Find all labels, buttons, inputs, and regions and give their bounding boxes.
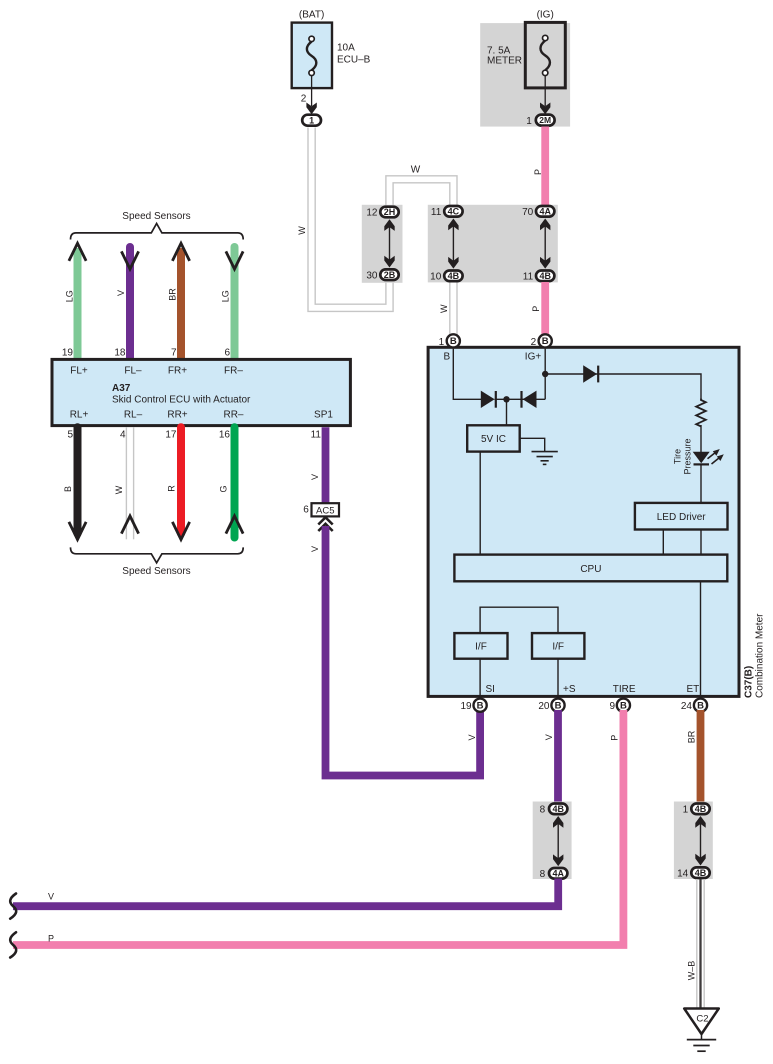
- svg-text:19: 19: [460, 701, 472, 712]
- wire CPU down to ET pin 24: [700, 581, 702, 700]
- label W (top horizontal segment): [411, 165, 421, 176]
- svg-text:I/F: I/F: [475, 642, 487, 653]
- wire W-B: 4B down to ground C2: [697, 879, 704, 1008]
- designator C37(B) Combination Meter: [744, 613, 766, 698]
- svg-text:4C: 4C: [448, 206, 460, 216]
- pin 1 of connector 2M: [526, 116, 532, 127]
- ground (5V IC): [532, 452, 558, 465]
- pin 2 terminal B: [539, 334, 552, 347]
- svg-text:W: W: [114, 485, 124, 494]
- svg-text:V: V: [544, 734, 554, 740]
- label V (left horizontal wire): [48, 892, 54, 902]
- svg-text:FL–: FL–: [124, 365, 142, 376]
- svg-text:B: B: [443, 352, 450, 363]
- svg-text:BR: BR: [168, 288, 178, 301]
- svg-text:2H: 2H: [384, 207, 396, 217]
- connector 4B (left): [444, 271, 462, 282]
- wire B pin1 down and right to diode D1: [453, 349, 481, 400]
- pin 10 of 4B: [430, 271, 442, 282]
- label P (below 4B): [531, 306, 541, 312]
- pin 2 of fuse: [301, 94, 307, 105]
- label P (TIRE wire): [610, 735, 620, 741]
- interface I/F (SI): [454, 633, 507, 659]
- wire V: 4A down and left to edge: [13, 879, 558, 907]
- connector 4C: [444, 206, 462, 217]
- wire LG speed sensor FR-: [226, 247, 243, 358]
- value 7.5A METER: [487, 46, 522, 67]
- pin 20 label: [538, 701, 550, 712]
- pin 12: [366, 208, 378, 219]
- junction node between diodes: [503, 396, 509, 402]
- wire I/F to +S pin 20: [557, 659, 559, 700]
- label V (+S wire): [544, 734, 554, 740]
- junction arrow between 4B and 4A: [553, 816, 563, 866]
- wire P: 4B down to meter pin 2 B: [541, 282, 549, 335]
- svg-text:LG: LG: [221, 290, 231, 302]
- svg-text:10: 10: [430, 271, 442, 282]
- connector 2M: [536, 115, 555, 126]
- wire 5V IC down to CPU: [479, 452, 481, 555]
- svg-text:1: 1: [309, 115, 314, 125]
- svg-text:4B: 4B: [539, 271, 551, 281]
- wire I/F to SI pin 19: [479, 659, 481, 700]
- svg-text:2: 2: [301, 94, 307, 105]
- double chevron below AC5: [318, 517, 332, 531]
- connector block 2H/2B background: [362, 205, 403, 283]
- svg-text:6: 6: [303, 505, 309, 516]
- svg-text:I/F: I/F: [552, 642, 564, 653]
- brace speed sensors bottom: [71, 547, 244, 562]
- svg-text:P: P: [533, 169, 543, 175]
- regulator 5V IC: [467, 425, 520, 451]
- pin 24 terminal B: [694, 699, 707, 712]
- pin 30: [366, 270, 378, 281]
- connector 4A (V wire): [549, 868, 567, 879]
- wire P: connector 2M down to 4A: [541, 127, 549, 206]
- svg-text:B: B: [63, 486, 73, 492]
- svg-text:W: W: [411, 165, 421, 176]
- pin 9 label: [609, 701, 615, 712]
- diode D3: [583, 365, 598, 382]
- svg-text:Speed Sensors: Speed Sensors: [122, 566, 190, 577]
- wire W: fuse connector 1 down, right, up into 2B: [308, 128, 393, 312]
- connector 4B upper (ET): [691, 804, 709, 815]
- pin 16 of A37: [219, 430, 231, 441]
- pin 19 label: [460, 701, 472, 712]
- interface I/F (+S): [532, 633, 584, 659]
- svg-text:11: 11: [523, 271, 534, 282]
- svg-text:4A: 4A: [552, 868, 564, 878]
- diode D2: [522, 391, 537, 408]
- pin 5 of A37: [67, 430, 73, 441]
- pin 17 of A37: [165, 430, 177, 441]
- svg-text:16: 16: [219, 430, 231, 441]
- svg-text:V: V: [467, 734, 477, 740]
- svg-text:Combination Meter: Combination Meter: [755, 613, 766, 698]
- pin 6 of A37: [224, 348, 230, 359]
- svg-text:6: 6: [224, 348, 230, 359]
- pin 1 terminal B: [447, 334, 460, 347]
- junction arrow between 4A and 4B: [540, 219, 550, 269]
- ground C2: [684, 1009, 719, 1035]
- pin 1 label: [439, 337, 445, 348]
- wire V: SP1 down to AC5: [322, 427, 330, 503]
- svg-text:FR–: FR–: [224, 365, 243, 376]
- svg-text:4B: 4B: [695, 804, 707, 814]
- svg-text:ET: ET: [687, 684, 700, 695]
- svg-text:Speed Sensors: Speed Sensors: [122, 211, 190, 222]
- svg-text:W–B: W–B: [687, 961, 697, 981]
- svg-text:ECU–B: ECU–B: [337, 55, 371, 66]
- wire W: 4B down to meter pin 1 B: [450, 282, 457, 335]
- label P (left horizontal wire): [48, 934, 54, 944]
- junction arrow between 4C and 4B: [448, 219, 458, 269]
- svg-text:(BAT): (BAT): [299, 9, 324, 20]
- wire between diodes D1 D2: [495, 398, 546, 400]
- svg-text:11: 11: [431, 207, 442, 218]
- terminal FR-: [224, 365, 243, 376]
- wire R speed sensor RR+: [172, 427, 189, 539]
- svg-text:TIRE: TIRE: [613, 684, 636, 695]
- designator A37: [112, 383, 131, 394]
- fuse 10A ECU-B (BAT): [292, 23, 332, 89]
- svg-text:C2: C2: [696, 1013, 708, 1024]
- pin 7 of A37: [171, 348, 177, 359]
- svg-text:14: 14: [677, 868, 689, 879]
- connector 2B: [380, 269, 398, 280]
- svg-text:4B: 4B: [695, 868, 707, 878]
- label W (below 4B): [439, 304, 449, 313]
- fuse 7.5A METER (IG): [525, 22, 565, 88]
- wire fuse ECU-B to connector 1: [306, 76, 316, 115]
- svg-text:LED Driver: LED Driver: [657, 512, 707, 523]
- svg-text:SP1: SP1: [314, 410, 333, 421]
- wire G speed sensor RR-: [226, 427, 243, 537]
- svg-text:RR+: RR+: [167, 410, 187, 421]
- svg-text:BR: BR: [686, 730, 696, 743]
- pin 20 terminal B: [551, 699, 564, 712]
- svg-text:70: 70: [522, 207, 534, 218]
- wire BR: pin 24 ET down to 4B: [697, 710, 705, 804]
- connector block 4B/4A background: [533, 802, 572, 880]
- svg-text:P: P: [48, 934, 54, 944]
- wire LED Driver to CPU (left): [662, 530, 664, 555]
- label BR (FR+): [168, 288, 178, 301]
- svg-text:10A: 10A: [337, 43, 355, 54]
- svg-text:METER: METER: [487, 56, 522, 67]
- wire BR speed sensor FR+: [172, 243, 189, 358]
- label (BAT): [299, 9, 324, 20]
- connector 4B lower (ET): [691, 867, 709, 878]
- svg-text:P: P: [531, 306, 541, 312]
- wire LED down to LED Driver: [700, 464, 702, 503]
- svg-text:2B: 2B: [384, 270, 396, 280]
- pin 11 of A37 (SP1): [311, 430, 322, 441]
- svg-text:W: W: [297, 226, 307, 235]
- name Skid Control ECU with Actuator: [112, 395, 251, 406]
- ECU A37 Skid Control ECU with Actuator: [52, 359, 350, 425]
- svg-text:B: B: [450, 336, 457, 347]
- label V (above AC5): [310, 474, 320, 480]
- svg-text:+S: +S: [563, 684, 576, 695]
- label W-B: [687, 961, 697, 981]
- connector 4B (right): [536, 271, 554, 282]
- ground hash: [687, 1034, 716, 1051]
- svg-text:RL+: RL+: [70, 410, 89, 421]
- svg-text:RL–: RL–: [124, 410, 143, 421]
- svg-text:1: 1: [526, 116, 532, 127]
- svg-text:11: 11: [311, 430, 322, 441]
- break symbol P wire: [10, 932, 16, 957]
- svg-text:5: 5: [67, 430, 73, 441]
- terminal SI: [486, 684, 495, 695]
- label Speed Sensors (top): [122, 211, 190, 222]
- svg-text:7: 7: [171, 348, 177, 359]
- label W (vertical segment): [297, 226, 307, 235]
- break symbol V wire: [10, 894, 16, 919]
- wire LG speed sensor FL+: [69, 243, 86, 358]
- svg-text:Skid Control ECU with Actuator: Skid Control ECU with Actuator: [112, 395, 251, 406]
- svg-text:V: V: [310, 474, 320, 480]
- svg-text:2M: 2M: [539, 115, 551, 125]
- wire fuse METER to connector 2M: [540, 76, 550, 115]
- diode D1: [481, 391, 496, 408]
- pin 6 of AC5: [303, 505, 309, 516]
- svg-text:30: 30: [366, 270, 378, 281]
- net label IG+ inside meter: [525, 352, 542, 363]
- pin 14 of 4B (ET): [677, 868, 689, 879]
- svg-text:4B: 4B: [552, 804, 564, 814]
- label LG (FR-): [221, 290, 231, 302]
- wire resistor to LED: [700, 425, 702, 452]
- brace speed sensors top: [71, 224, 244, 240]
- wire junction to diode D3 and LED branch: [545, 374, 701, 400]
- connector 4A: [536, 206, 554, 217]
- svg-text:V: V: [48, 892, 54, 902]
- svg-text:W: W: [439, 304, 449, 313]
- value 10A ECU-B: [337, 43, 371, 66]
- svg-text:FL+: FL+: [70, 365, 88, 376]
- connector AC5: [312, 503, 340, 516]
- label W (RL-): [114, 485, 124, 494]
- wire W speed sensor RL-: [121, 427, 138, 539]
- pin 19 of A37: [62, 348, 74, 359]
- svg-text:CPU: CPU: [580, 564, 601, 575]
- connector 2H: [380, 207, 398, 218]
- terminal SP1: [314, 410, 333, 421]
- terminal +S: [563, 684, 576, 695]
- terminal RL-: [124, 410, 143, 421]
- terminal RL+: [70, 410, 89, 421]
- CPU: [454, 555, 727, 582]
- label LG (FL+): [65, 290, 75, 302]
- pin 8 of 4B: [540, 804, 546, 815]
- pin 4 of A37: [120, 430, 126, 441]
- LED Driver: [635, 503, 728, 530]
- wire junction down to 5V IC: [506, 399, 508, 425]
- svg-text:SI: SI: [486, 684, 495, 695]
- svg-text:FR+: FR+: [168, 365, 187, 376]
- svg-text:B: B: [477, 701, 484, 712]
- terminal TIRE: [613, 684, 636, 695]
- fuse 7.5A METER (IG) background: [480, 23, 570, 127]
- svg-text:V: V: [310, 546, 320, 552]
- net label B inside meter: [443, 352, 450, 363]
- svg-text:P: P: [610, 735, 620, 741]
- terminal ET: [687, 684, 700, 695]
- svg-text:2: 2: [531, 337, 537, 348]
- wire B speed sensor RL+: [69, 427, 86, 539]
- LED tire pressure: [693, 449, 724, 464]
- svg-text:V: V: [116, 290, 126, 296]
- svg-text:4: 4: [120, 430, 126, 441]
- svg-text:12: 12: [366, 208, 378, 219]
- svg-text:8: 8: [540, 869, 546, 880]
- svg-text:B: B: [542, 336, 549, 347]
- wire V: AC5 down, right, up to meter SI pin 19: [326, 526, 481, 776]
- svg-text:G: G: [219, 485, 229, 492]
- pin 70 of 4A: [522, 207, 534, 218]
- wire V speed sensor FL-: [121, 247, 138, 358]
- svg-text:5V IC: 5V IC: [481, 434, 506, 445]
- svg-text:B: B: [620, 701, 627, 712]
- resistor (tire pressure LED): [696, 399, 706, 427]
- svg-text:IG+: IG+: [525, 352, 542, 363]
- wire bracket joining I/F inputs: [480, 607, 558, 633]
- wire V: pin 20 +S down to 4B: [554, 710, 562, 804]
- terminal FR+: [168, 365, 187, 376]
- wire IG+ pin2 down to junction: [544, 349, 546, 400]
- terminal FL-: [124, 365, 142, 376]
- connector block 4B/4B background (ET): [674, 802, 713, 880]
- junction node on IG+: [542, 371, 548, 377]
- terminal RR+: [167, 410, 187, 421]
- wire P: pin 9 TIRE down and left to edge: [13, 710, 623, 945]
- pin 1 of 4B (ET): [683, 805, 689, 816]
- pin 2 label: [531, 337, 537, 348]
- svg-text:B: B: [697, 701, 704, 712]
- wire W: 2H up, right, down into 4C: [386, 176, 457, 206]
- pin 9 terminal B: [617, 699, 630, 712]
- label Tire Pressure: [673, 438, 693, 474]
- label Speed Sensors (bottom): [122, 566, 190, 577]
- pin 19 terminal B: [474, 699, 487, 712]
- label P (above 4A): [533, 169, 543, 175]
- svg-text:19: 19: [62, 348, 74, 359]
- svg-text:4A: 4A: [539, 206, 551, 216]
- wire LED Driver to CPU (right): [700, 530, 702, 555]
- junction arrow between 2H and 2B: [384, 219, 394, 267]
- svg-text:18: 18: [114, 348, 126, 359]
- label V (below AC5): [310, 546, 320, 552]
- svg-text:24: 24: [681, 701, 693, 712]
- svg-text:1: 1: [683, 805, 689, 816]
- connector block 4C/4B/4A background: [428, 205, 558, 283]
- svg-text:20: 20: [538, 701, 550, 712]
- pin 24 label: [681, 701, 693, 712]
- pin 11 of 4B right: [523, 271, 534, 282]
- connector 1: [302, 115, 321, 126]
- svg-text:8: 8: [540, 804, 546, 815]
- terminal FL+: [70, 365, 88, 376]
- svg-text:9: 9: [609, 701, 615, 712]
- label B (RL+): [63, 486, 73, 492]
- svg-text:4B: 4B: [448, 271, 460, 281]
- svg-text:LG: LG: [65, 290, 75, 302]
- label R (RR+): [167, 485, 177, 492]
- svg-text:R: R: [167, 485, 177, 492]
- pin 8 of 4A: [540, 869, 546, 880]
- terminal RR-: [223, 410, 243, 421]
- svg-text:A37: A37: [112, 383, 131, 394]
- label (IG): [537, 9, 554, 20]
- pin 18 of A37: [114, 348, 126, 359]
- svg-text:(IG): (IG): [537, 9, 554, 20]
- wire 5V IC to ground: [520, 438, 545, 451]
- svg-text:1: 1: [439, 337, 445, 348]
- svg-text:17: 17: [165, 430, 177, 441]
- svg-text:B: B: [555, 701, 562, 712]
- svg-text:C37(B): C37(B): [744, 666, 755, 698]
- pin 11 of 4C: [431, 207, 442, 218]
- label BR (ET wire): [686, 730, 696, 743]
- svg-text:AC5: AC5: [316, 505, 334, 516]
- combination meter C37(B) box: [428, 347, 739, 696]
- label G (RR-): [219, 485, 229, 492]
- junction arrow between 4B and 4B (ET): [695, 816, 705, 866]
- label V (above SI corner): [467, 734, 477, 740]
- label V (FL-): [116, 290, 126, 296]
- svg-text:RR–: RR–: [223, 410, 243, 421]
- connector 4B (V wire): [549, 804, 567, 815]
